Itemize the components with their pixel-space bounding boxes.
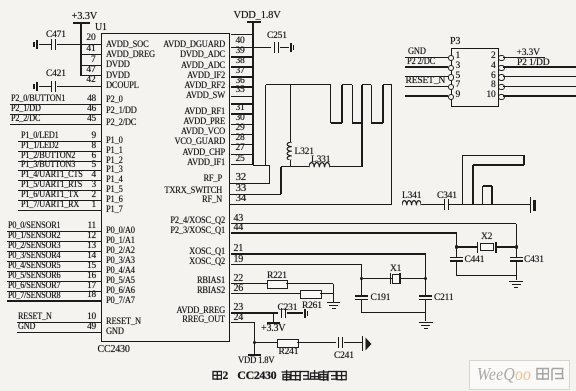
capacitor C431 [510,257,523,259]
capacitor C231 [281,308,283,319]
ground below C211 [419,322,433,324]
pin number 40 [180,36,300,48]
wire pin41 rung [81,54,101,55]
inductor L331 [309,162,330,168]
P3 pin number 9 [456,90,461,102]
wire P3 pin 5 [405,76,448,77]
wire +3.3V tap [273,313,274,322]
wire net P2_0/BUTTON1 pin 48 [10,104,101,105]
wire [425,278,426,295]
wire net P0_6/SENSOR7 pin 17 [7,291,101,292]
P3 pin 2 circle [498,55,504,61]
wire [473,164,524,166]
wire pin30 rung [231,124,254,125]
wire net P1_2/BUTTON2 pin 6 [18,161,101,162]
wire [39,86,51,87]
junction [455,245,458,248]
pin number 19 [234,254,244,267]
P3 pin number 6 [376,71,496,83]
capacitor C441 [450,257,463,259]
wire +3.3V bus down [80,24,81,76]
capacitor C471 label [46,30,66,42]
watermark 维 character [536,367,550,381]
wire to C251 [253,47,271,48]
wire [361,278,362,295]
capacitor C251 label [267,31,287,43]
wire [352,85,354,124]
wire [344,342,362,343]
P3 pin 10 circle [498,94,504,100]
wire pin42 DCOUPL to C421 [57,86,101,87]
wire pin28 rung [231,144,254,145]
pin number 38 [180,56,300,68]
caption character [327,370,338,381]
capacitor C191 [355,295,368,297]
pin number 30 [180,113,300,125]
wire [281,166,309,167]
antenna feed terminal [530,197,531,213]
ground at RBIAS [327,302,341,304]
antenna meander trace [330,85,332,124]
ground below C431 [509,281,523,283]
wire [472,165,474,204]
wire P3 pin 3 [405,66,448,67]
wire to ground [333,284,334,302]
junction [424,277,427,280]
wire RF_P riser [269,165,270,183]
wire [457,246,478,247]
wire pin29 rung [231,134,254,135]
P3 pin number 7 [456,80,461,92]
P2_2/DC net label at P3 [407,56,435,68]
pin number 47 [0,65,96,77]
wire net P0_5/SENSOR6 pin 16 [7,281,101,282]
wire X1 right node [425,254,426,278]
P3 pin 5 circle [448,74,454,80]
pin number 29 [180,123,300,135]
wire [280,47,289,48]
wire [497,246,516,247]
caption 图 character [212,370,223,381]
wire L321 bottom lead [290,160,291,167]
VDD 1.8V label [238,355,274,367]
test point terminal after C241 [362,336,363,351]
wire net RESET_N pin 10 [17,322,101,323]
U1 reference label [95,22,107,35]
wire balun rail riser to jog [265,85,266,166]
wire pin40 rung [231,47,254,48]
wire [352,122,361,124]
resistor R261 [300,290,322,299]
pin number 44 [234,222,244,235]
caption text CC2430 [237,368,276,383]
capacitor C211 [419,295,432,297]
pin number 41 [0,44,96,56]
P3 pin 6 circle [498,74,504,80]
caption character [281,370,292,381]
wire X2 right node [516,224,517,257]
pin number 39 [180,46,300,58]
VDD_1.8V power symbol [234,9,281,22]
wire net P0_7/SENSOR8 pin 18 [7,300,101,301]
P3 pin 1 circle [448,55,454,61]
wire [342,84,353,86]
P3 pin 8 circle [498,84,504,90]
wire [483,185,493,187]
wire [371,85,373,124]
C211 label [434,293,453,305]
wire jog to VDD bus [253,165,270,166]
+3.3V power symbol top-left [72,10,98,23]
C341 label [437,191,457,203]
crystal X1 label [390,264,401,276]
P3 pin number 3 [456,61,461,73]
wire [491,186,493,204]
resistor R241 [277,339,298,348]
capacitor C241 [338,337,340,348]
R261 label [302,301,322,313]
pin number 24 [234,312,244,325]
watermark box [469,360,570,390]
C241 label [334,351,354,363]
junction [360,277,363,280]
wire P3 pin 7 [405,86,448,87]
wire pin35 rung [231,96,254,97]
watermark 库 character [551,367,565,381]
wire X2 bottom rail [457,275,516,276]
capacitor C471 [51,39,53,50]
R221 label [267,271,287,283]
wire net P1_6/UART1_TX pin 2 [18,200,101,201]
GND net label at P3 [408,46,426,58]
pin number 31 [180,103,300,115]
pin number 35 [180,85,300,97]
pin number 28 [180,133,300,145]
wire [362,84,372,86]
caption character [318,370,329,381]
P3 pin 4 circle [498,65,504,71]
wire pin38 rung [231,66,254,67]
wire P2_3/XOSC_Q1 pin 44 [231,232,457,233]
C441 label [465,255,485,267]
wire [523,155,525,165]
wire [320,293,334,294]
wire [361,300,362,313]
wire [331,122,342,124]
VDD 1.8V power bar [248,354,262,356]
wire net P1_0/LED1 pin 9 [18,141,101,142]
wire balun top rail [266,84,331,85]
wire P3 pin 6 [503,76,576,77]
wire [254,342,277,343]
P3 pin 9 circle [448,94,454,100]
C231 label [278,303,298,315]
pin number 42 [0,75,96,87]
wire pin37 rung [231,76,254,77]
+3.3V label [261,323,285,336]
wire pin25 rung [231,164,254,165]
wire pin36 rung [231,86,254,87]
+3.3V net label at P3 [517,47,540,59]
pin number 34 [236,192,247,206]
wire [516,262,517,276]
pin number 26 [234,283,244,296]
wire [382,85,384,124]
caption character [336,370,347,381]
wire L321 top lead [290,85,291,142]
capacitor C251 [274,42,276,53]
wire RREG_OUT pin 24 [231,322,255,323]
wire [421,204,444,205]
wire net P0_2/SENSOR3 pin 13 [7,251,101,252]
wire XOSC_Q2 pin 19 [231,264,362,265]
pin number 20 [0,33,96,45]
wire P3 pin 2 [503,57,545,58]
wire meander long descender to RF_N line [391,85,393,205]
wire XOSC_Q1 pin 21 [231,253,426,254]
wire net P1_7/UART1_RX pin 1 [18,210,101,211]
wire P3 pin 1 [405,57,448,58]
wire net P2_2/DC pin 45 [10,124,101,125]
wire right ladder top [231,34,254,35]
wire TXRX_SWITCH pin 33 [230,194,282,195]
pin number 32 [236,171,247,185]
junction [515,245,518,248]
caption character [299,370,310,381]
watermark WeeQoo text [477,364,531,385]
wire [456,262,457,276]
crystal X2 label [481,232,492,244]
pin number 27 [180,143,300,155]
P3 pin number 1 [456,51,461,63]
antenna bump [482,186,484,204]
wire RBIAS2 pin 26 [231,293,301,294]
+3.3V power symbol at C231 [267,322,281,324]
wire net P1_1/LED2 pin 8 [18,151,101,152]
wire pin47 rung [81,75,101,76]
ground at C231 [304,309,306,318]
wire [297,342,336,343]
wire to meander tap [330,166,362,167]
wire [287,312,303,313]
pin number 22 [234,273,244,286]
wire [341,85,343,124]
ground at C251 [290,43,292,52]
crystal X1 [390,273,392,284]
wire net GND pin 49 [17,332,101,333]
wire P3 pin 8 [503,86,576,87]
pin number 43 [234,213,244,226]
wire [383,84,392,86]
wire P3 pin 9 [405,95,448,96]
junction at R241 tap [253,341,257,345]
C191 label [371,293,391,305]
P3 pin number 5 [456,71,461,83]
connector P3 label [450,36,460,49]
wire pin7 rung [81,65,101,66]
wire [425,300,426,313]
crystal X2 [477,242,479,253]
op-amp U1 CC2430 chip body [101,33,230,342]
resistor R221 [267,280,288,289]
wire pin39 rung [231,56,254,57]
pin number 25 [180,154,300,166]
wire X1 row [362,278,426,279]
wire X2 left node [456,233,457,257]
wire P2_4/XOSC_Q2 pin 43 [231,223,517,224]
wire RBIAS1 pin 22 [231,283,267,284]
RESET_N net label at P3 [406,75,446,87]
ground at C421 [36,82,38,91]
caption character [309,370,320,381]
pin number 21 [234,243,244,256]
wire RF_P pin 32 [230,183,270,184]
wire net P1_3/BUTTON3 pin 5 [18,170,101,171]
wire TXRX_SWITCH tap to balun node [280,167,281,194]
wire net P2_1/DD pin 46 [10,114,101,115]
pin number 23 [234,302,244,315]
wire P3 pin 10 [503,95,576,96]
wire antenna bottom [449,204,530,205]
wire net P0_4/SENSOR5 pin 15 [7,271,101,272]
caption 2 [223,369,229,383]
P3 pin number 10 [376,90,496,102]
antenna hook trace [462,155,464,204]
C431 label [524,255,544,267]
L341 label [402,191,421,203]
inductor L321 [286,142,293,161]
wire pin31 rung [231,113,254,114]
P2_1/DD net label at P3 [517,57,549,69]
wire pin27 rung [231,154,254,155]
capacitor C421 label [46,69,66,81]
wire net P1_5/UART1_RTS pin 3 [18,190,101,191]
L321 label [295,147,314,159]
wire to ground [425,313,426,322]
wire [39,44,51,45]
CC2430 value label [98,344,130,357]
P3 pin 7 circle [448,84,454,90]
wire to ground [516,276,517,281]
caption character [290,370,301,381]
wire X1 bottom rail [362,312,426,313]
P3 pin number 4 [376,61,496,73]
wire net P1_4/UART1_CTS pin 4 [18,180,101,181]
wire X1 left node [361,265,362,279]
wire AVDD_RREG pin 23 [231,312,278,313]
wire VDD_1.8V bus down right ladder [252,23,253,165]
capacitor C341 [444,199,446,210]
wire [371,122,383,124]
P3 pin 3 circle [448,65,454,71]
wire P3 pin 4 [503,66,576,67]
wire [286,283,333,284]
wire net P0_3/SENSOR4 pin 14 [7,261,101,262]
ground at C471 [36,40,38,49]
pin number 36 [180,76,300,88]
pin number 7 [0,55,96,67]
pin number 33 [236,182,247,196]
inductor L341 [402,200,421,206]
wire net P0_0/SENSOR1 pin 11 [7,231,101,232]
connector P3 body [451,48,499,107]
L331 label [311,155,330,167]
wire [462,155,523,157]
wire right ladder2 top [231,103,254,104]
pin number 37 [180,66,300,78]
capacitor C421 [51,81,53,92]
wire net P0_1/SENSOR2 pin 12 [7,241,101,242]
P3 pin number 8 [376,80,496,92]
wire meander descender to L331 [361,85,363,168]
wire RREG_OUT down to VDD bar [254,322,255,354]
wire RF_N pin 34 [230,204,393,205]
R241 label [279,347,299,359]
P3 pin number 2 [376,51,496,63]
wire pin20 rung [57,44,101,45]
